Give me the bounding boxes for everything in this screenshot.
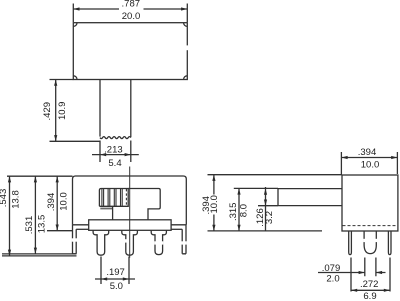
arrow .787 left [73, 7, 79, 10]
dim left stack top extension line [7, 175, 73, 177]
dim .394/10.0 left extension line [47, 230, 73, 232]
side pin 1 [349, 231, 352, 255]
scan gap side middle pin [363, 239, 377, 242]
arrow .272 left [351, 289, 357, 292]
svg-text:.429: .429 [42, 102, 53, 121]
dim .272/6.9 dimension line [351, 289, 390, 291]
arrow .126 up [264, 189, 267, 195]
side view dashed line [343, 225, 398, 227]
dim .531/13.5 dimension line [34, 176, 36, 254]
stem top extension line [234, 187, 278, 189]
svg-text:10.0: 10.0 [209, 195, 220, 214]
svg-text:.272: .272 [360, 279, 379, 290]
svg-text:.531: .531 [24, 216, 35, 235]
svg-text:.394: .394 [46, 193, 57, 212]
right body step [171, 228, 182, 230]
arrow .543 up [8, 176, 11, 182]
pin 1 front [93, 230, 109, 255]
side middle pin [364, 231, 376, 254]
dim .429/10.9 top reference line [50, 79, 74, 81]
dim .394/10.0 side bottom extension line [208, 230, 323, 232]
svg-text:10.9: 10.9 [57, 102, 68, 121]
front view body outline [73, 176, 187, 225]
arrow .394L up [56, 176, 59, 182]
dim .079/2.0 extension lines [365, 258, 376, 277]
side pin 3 [388, 231, 391, 255]
arrow .394L down [56, 225, 59, 231]
corner mark bottom-left [74, 76, 77, 79]
dim .429/10.9 bottom extension line [50, 140, 101, 142]
arrow .531 up [34, 176, 37, 182]
left body step [76, 228, 89, 230]
dim .315/8.0 dimension line [238, 188, 240, 231]
corner mark top-right [184, 23, 187, 26]
front view centerline [129, 167, 131, 258]
arrow .394top right [391, 156, 397, 159]
dim .213/5.4 extension lines [100, 141, 131, 163]
dim .394/10.0 side top extension line [208, 174, 343, 176]
corner mark bottom-right [184, 76, 187, 79]
dim .787/20.0 dimension line [73, 8, 187, 10]
scan gap left tab [72, 238, 78, 241]
arrow .079 left-point [376, 271, 382, 274]
svg-text:.394: .394 [358, 147, 377, 158]
arrow .394side down [212, 225, 215, 231]
slider right block [128, 189, 160, 220]
arrow .429 down [54, 135, 57, 141]
arrow .315 down [237, 225, 240, 231]
dim .079/2.0 dimension line [318, 272, 386, 274]
top view body rectangle [73, 23, 187, 80]
scan gap pin 2 left edge [125, 239, 127, 242]
arrow .787 right [181, 7, 187, 10]
arrow .213 right [125, 153, 131, 156]
slider neck edge [112, 207, 114, 220]
slider knob hatch [102, 189, 122, 206]
svg-text:2.0: 2.0 [326, 274, 339, 285]
dim .126/3.2 dimension line [265, 187, 267, 231]
dim .394/10.0 top extension lines [341, 152, 397, 174]
arrow .126 down [264, 200, 267, 206]
slider neck shadow [100, 208, 112, 210]
svg-text:3.2: 3.2 [264, 211, 275, 224]
arrow .531 down [34, 248, 37, 254]
stem (broken view) left edge [99, 80, 101, 137]
svg-text:13.8: 13.8 [11, 190, 22, 209]
arrow .315 up [237, 188, 240, 194]
bottom extension line 13.5 [2, 253, 77, 255]
svg-text:10.0: 10.0 [361, 160, 380, 171]
svg-text:8.0: 8.0 [239, 204, 250, 217]
side view stem [278, 189, 342, 206]
dim .213/5.4 dimension line [92, 154, 139, 156]
dim .787/20.0 extension lines [73, 4, 187, 23]
arrow .394side up [212, 175, 215, 181]
svg-text:13.5: 13.5 [36, 215, 47, 234]
arrow .197 left [101, 277, 107, 280]
arrow .429 up [54, 80, 57, 86]
svg-text:.213: .213 [104, 145, 123, 156]
scan gap right tab [181, 241, 187, 244]
base plate [89, 220, 171, 231]
svg-text:10.0: 10.0 [58, 192, 69, 211]
slider knob hatch dashed line [125, 189, 127, 206]
arrow .543 down [8, 250, 11, 256]
svg-text:5.4: 5.4 [108, 158, 121, 169]
svg-text:20.0: 20.0 [122, 11, 141, 22]
svg-text:.787: .787 [122, 0, 141, 10]
corner mark top-left [74, 23, 77, 26]
dim .429/10.9 dimension line [55, 80, 57, 142]
pin 3 front [151, 230, 166, 254]
svg-text:.197: .197 [106, 267, 125, 278]
stem bottom extension line [258, 205, 278, 207]
arrow .213 left [100, 153, 106, 156]
dim .394/10.0 side dimension line [213, 175, 215, 231]
svg-text:6.9: 6.9 [363, 291, 376, 301]
svg-text:5.0: 5.0 [110, 281, 123, 292]
side view body [342, 175, 398, 231]
dim .197/5.0 dimension line [95, 278, 135, 280]
slider knob outline [99, 189, 128, 207]
svg-text:.315: .315 [228, 203, 239, 222]
svg-text:.543: .543 [0, 189, 9, 208]
dim .197/5.0 extension lines [101, 257, 129, 285]
stem break zigzag [100, 137, 131, 139]
front view body bottom edges [73, 224, 187, 226]
scan gap pin 3 front [154, 241, 163, 244]
arrow .272 right [384, 289, 390, 292]
dim .394/10.0 left dimension line [56, 176, 58, 231]
dim .543/13.8 dimension line [9, 176, 11, 256]
dim .272/6.9 extension lines [351, 258, 390, 292]
arrow .197 right [123, 277, 129, 280]
bottom extension line 13.8 [2, 255, 77, 257]
scan gap top-view right edge [186, 45, 189, 50]
left mounting tab [73, 225, 77, 254]
arrow .394top left [341, 156, 347, 159]
stem right edge [130, 80, 132, 138]
pin 2 front [122, 230, 138, 255]
arrow .079 right-point [359, 271, 365, 274]
right mounting tab [182, 225, 186, 254]
dim .394/10.0 top dimension line [341, 157, 397, 159]
